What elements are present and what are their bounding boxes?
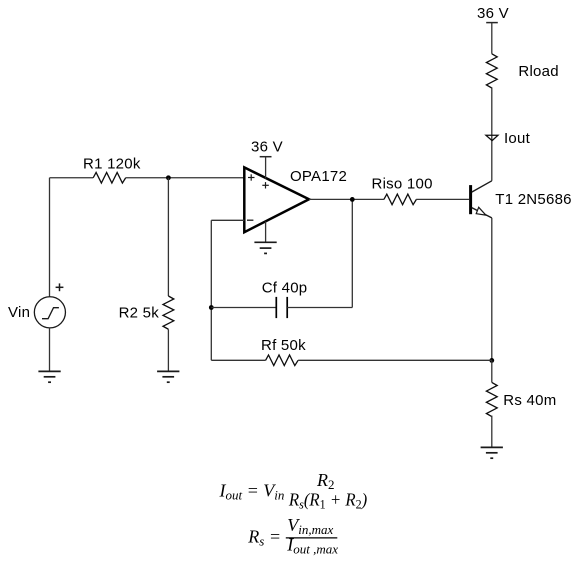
current arrow Iout [486, 135, 498, 140]
wire op-amp to ground [265, 221, 267, 242]
resistor Riso [384, 194, 417, 205]
svg-text:Rs(R1 + R2): Rs(R1 + R2) [288, 490, 367, 512]
svg-text:36 V: 36 V [477, 5, 509, 22]
wire emitter down to Rf node [491, 218, 493, 361]
transistor T1 base bar [469, 185, 472, 214]
ground Vin [38, 371, 60, 382]
op-amp minus input mark [247, 219, 253, 221]
ground op-amp [254, 242, 276, 253]
svg-text:Rs =: Rs = [247, 527, 281, 549]
junction emitter/Rf/Rs node [489, 358, 494, 363]
wire supply bar to op-amp [265, 157, 267, 179]
svg-text:R1 120k: R1 120k [83, 156, 141, 173]
wire Rs to ground [491, 416, 493, 448]
wire node to R2 [167, 178, 169, 296]
wire Cf right [287, 307, 352, 309]
source Vin waveform [42, 308, 59, 319]
formula Rs [247, 515, 338, 557]
transistor T1 collector stroke [472, 181, 492, 192]
svg-text:36 V: 36 V [251, 139, 283, 156]
wire left branch down to Vin [49, 178, 51, 297]
resistor R1 [93, 172, 126, 183]
svg-text:Vin,max: Vin,max [287, 515, 333, 537]
wire Cf left [211, 307, 276, 309]
wire op-amp minus input [211, 219, 244, 221]
op-amp supply plus mark [262, 182, 269, 188]
transistor T1 emitter arrow [476, 207, 486, 215]
wire Rf right to node [298, 359, 492, 361]
junction R1/R2 node [166, 175, 171, 180]
op-amp plus input mark [248, 174, 255, 180]
wire Vin to ground [49, 328, 51, 372]
wire Rload to Iout arrow [491, 87, 493, 180]
svg-text:OPA172: OPA172 [290, 168, 347, 185]
svg-text:T1 2N5686: T1 2N5686 [495, 191, 571, 208]
wire 36V bar to Rload [491, 23, 493, 54]
resistor Rload [486, 54, 497, 88]
svg-text:Rs 40m: Rs 40m [503, 392, 556, 409]
svg-text:Rf 50k: Rf 50k [261, 337, 306, 354]
junction feedback/Cf node [209, 305, 214, 310]
svg-text:Riso 100: Riso 100 [372, 176, 433, 193]
svg-text:R2 5k: R2 5k [119, 305, 160, 322]
svg-text:Cf 40p: Cf 40p [262, 280, 308, 297]
junction output/Cf node [350, 197, 355, 202]
source Vin plus sign [56, 283, 64, 291]
ground Rs [481, 447, 503, 458]
svg-text:Rload: Rload [518, 63, 558, 80]
capacitor Cf [276, 297, 287, 318]
power bar 36V top [486, 22, 498, 24]
wire feedback left vertical [210, 220, 212, 360]
svg-text:Vin: Vin [8, 304, 30, 321]
wire node to Rs [491, 360, 493, 382]
wire Rf left [211, 359, 265, 361]
ground R2 [157, 371, 179, 382]
power bar op-amp supply [260, 156, 272, 158]
svg-text:R2: R2 [316, 470, 335, 492]
svg-text:Iout: Iout [504, 130, 531, 147]
op-amp U1 OPA172 [244, 167, 309, 232]
wire input top left [50, 177, 94, 179]
svg-text:Iout = Vin: Iout = Vin [219, 480, 285, 502]
wire Cf to output vertical [351, 199, 353, 307]
resistor Rs [486, 382, 497, 416]
wire Riso to base [416, 198, 469, 200]
wire R1 to op-amp [126, 177, 245, 179]
resistor Rf [266, 355, 299, 366]
wire op-amp output [309, 198, 384, 200]
wire R2 to ground [167, 329, 169, 371]
source Vin circle [34, 297, 65, 328]
transistor T1 emitter stroke [472, 208, 492, 218]
formula Iout [219, 470, 368, 512]
resistor R2 [163, 296, 174, 329]
